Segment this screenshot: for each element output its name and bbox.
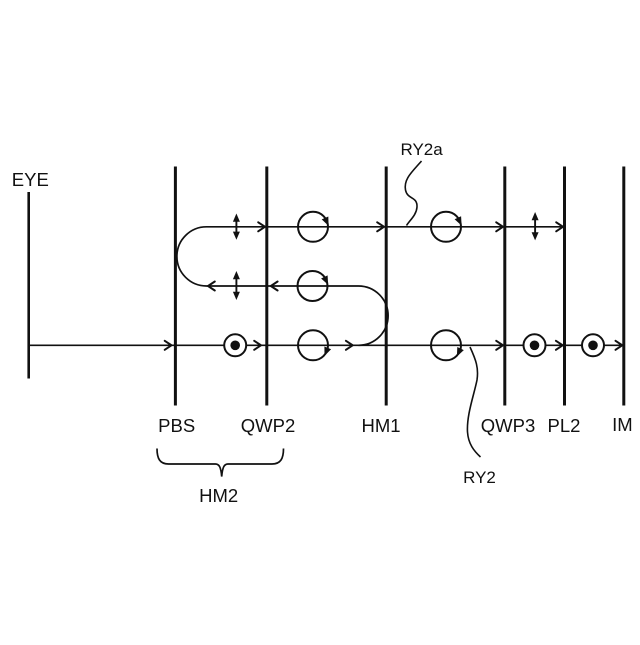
top ray wire PBS arc to PL2 [207, 226, 563, 228]
arrowhead middle ray after PBS arc pointing left [208, 282, 215, 291]
svg-text:RY2: RY2 [463, 468, 496, 487]
bottom ray wire EYE to IM [29, 344, 623, 346]
svg-text:HM2: HM2 [199, 485, 238, 506]
circular polarization circle middle ray [298, 271, 329, 301]
arrowhead top ray before HM1 [377, 222, 384, 231]
HM1 U-turn arc [359, 286, 389, 345]
arrowhead top ray before PL2 [556, 222, 563, 231]
arrowhead top ray before QWP3 [496, 222, 503, 231]
arrowhead top ray before QWP2 [258, 222, 265, 231]
svg-text:RY2a: RY2a [400, 140, 443, 159]
arrowhead bottom ray before PBS [165, 341, 172, 350]
QWP3 element line [503, 167, 506, 406]
circular polarization circle bottom ray right [431, 330, 464, 360]
PBS U-turn arc [177, 227, 207, 286]
svg-text:QWP2: QWP2 [241, 415, 295, 436]
out-of-plane polarization dot circle after QWP3 [524, 334, 546, 356]
circular polarization circle bottom ray left [298, 330, 331, 360]
svg-text:EYE: EYE [12, 169, 49, 190]
svg-text:IM: IM [612, 414, 633, 435]
vertical polarization double arrow top ray left [233, 214, 240, 240]
arrowhead bottom ray before PL2 [556, 341, 563, 350]
middle ray wire [207, 285, 359, 287]
HM2 range brace [157, 449, 284, 477]
vertical polarization double arrow middle ray [233, 271, 240, 300]
arrowhead bottom ray before QWP2 [254, 341, 261, 350]
PBS element line [174, 167, 177, 406]
arrowhead bottom ray before QWP3 [496, 341, 503, 350]
EYE pupil line [27, 192, 30, 379]
arrowhead middle ray right of QWP2 pointing left [271, 282, 278, 291]
PL2 element line [563, 167, 566, 406]
svg-text:PL2: PL2 [548, 415, 581, 436]
circular polarization circle top ray right [431, 212, 462, 242]
RY2a pointer squiggle [405, 161, 421, 226]
IM element line [622, 167, 625, 406]
RY2 pointer squiggle [467, 347, 480, 457]
QWP2 element line [265, 167, 268, 406]
circular polarization circle top ray left [298, 212, 329, 242]
svg-text:HM1: HM1 [361, 415, 400, 436]
arrowhead bottom ray before IM [616, 341, 623, 350]
arrowhead bottom ray before HM1 arc [346, 341, 353, 350]
vertical polarization double arrow top ray right [532, 212, 539, 240]
out-of-plane polarization dot circle after PL2 [582, 334, 604, 356]
out-of-plane polarization dot circle after PBS [224, 334, 246, 356]
HM1 element line [385, 167, 388, 406]
svg-text:PBS: PBS [158, 415, 195, 436]
svg-text:QWP3: QWP3 [481, 415, 535, 436]
